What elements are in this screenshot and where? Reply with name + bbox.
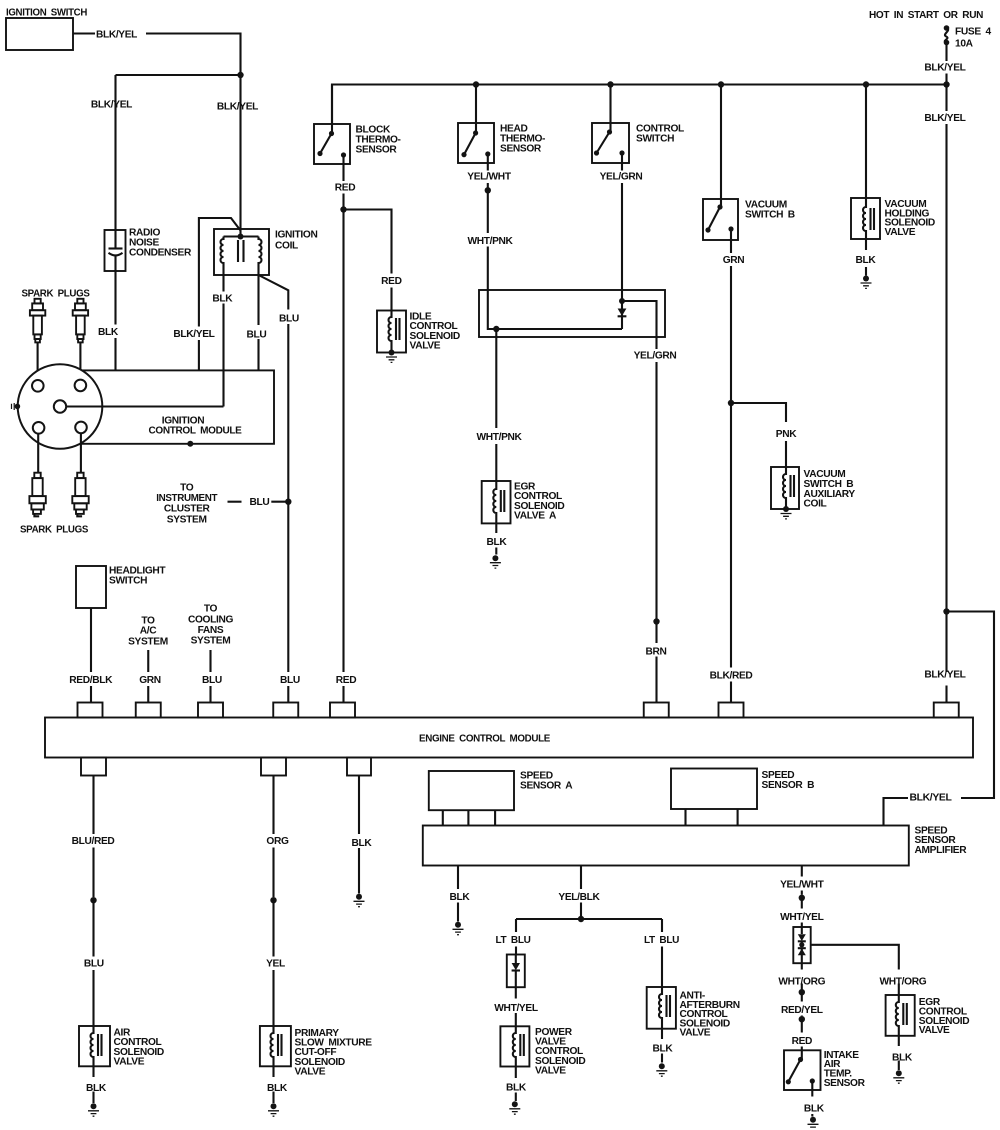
ground EGR A bbox=[492, 555, 498, 561]
wire PNK branch bbox=[731, 403, 786, 467]
ground EGR right bbox=[896, 1070, 902, 1076]
wire block thermo out RED bbox=[342, 155, 344, 210]
spark plug top-left bbox=[30, 299, 45, 343]
wire label to corner bbox=[146, 34, 241, 76]
connector pins ECM top bbox=[78, 703, 959, 718]
node junction YEL/BLK bbox=[578, 916, 584, 922]
wire BLU down bbox=[92, 900, 94, 1026]
spark plug bottom-right bbox=[72, 473, 88, 514]
svg-text:SPARK PLUGS: SPARK PLUGS bbox=[20, 525, 89, 536]
solenoid vacuum switch B auxiliary coil bbox=[771, 467, 799, 509]
svg-text:VALVE: VALVE bbox=[410, 340, 441, 351]
wire down to condenser bbox=[114, 75, 116, 230]
svg-text:BLU: BLU bbox=[250, 497, 270, 508]
wire LT BLU split bbox=[516, 918, 662, 920]
svg-text:RED: RED bbox=[792, 1036, 812, 1047]
svg-text:SWITCH: SWITCH bbox=[109, 576, 147, 587]
distributor left pickup dot bbox=[15, 404, 21, 410]
wire distributor to plug BL bbox=[37, 434, 39, 473]
capacitor radio noise condenser bbox=[105, 230, 126, 271]
connector loop box bbox=[479, 290, 665, 337]
solenoid idle control valve bbox=[377, 311, 406, 353]
svg-text:BLK: BLK bbox=[653, 1043, 674, 1054]
svg-text:BLK: BLK bbox=[449, 892, 470, 903]
node dot BLU splice bbox=[90, 897, 96, 903]
svg-text:AMPLIFIER: AMPLIFIER bbox=[915, 845, 968, 856]
wire dash cluster right bbox=[271, 501, 288, 503]
svg-text:BLK: BLK bbox=[506, 1083, 527, 1094]
wire EGR right to ground bbox=[898, 1036, 900, 1070]
node bus junction head thermo bbox=[473, 81, 479, 87]
wire RED/YEL bbox=[801, 992, 803, 1016]
node junction blkyel bbox=[237, 72, 243, 78]
wire EGR A to ground BLK bbox=[495, 523, 497, 554]
node dot BRN splice bbox=[653, 618, 659, 624]
wire fuse down bbox=[945, 45, 947, 61]
wire LT BLU left bbox=[515, 919, 517, 955]
wire distributor center to coil BLK bbox=[66, 405, 223, 407]
connector pins ECM bottom bbox=[81, 758, 371, 776]
wire coil right terminal BLU to module bbox=[257, 275, 259, 370]
svg-text:BLK: BLK bbox=[267, 1083, 288, 1094]
svg-text:BLU: BLU bbox=[84, 959, 104, 970]
svg-text:BLK: BLK bbox=[804, 1103, 825, 1114]
wire YEL/GRN inside loop bbox=[622, 290, 657, 337]
switch control switch bbox=[609, 85, 611, 133]
svg-text:WHT/PNK: WHT/PNK bbox=[467, 236, 513, 247]
svg-text:GRN: GRN bbox=[139, 675, 161, 686]
svg-text:IGNITION SWITCH: IGNITION SWITCH bbox=[6, 7, 87, 18]
speed sensor A box bbox=[429, 771, 514, 810]
svg-text:IGNITION: IGNITION bbox=[275, 230, 317, 241]
ground BLK ECM bbox=[356, 894, 362, 900]
svg-text:COOLING: COOLING bbox=[188, 614, 234, 625]
wire condenser to module BLK bbox=[114, 271, 116, 370]
node junction diode top bbox=[619, 298, 625, 304]
svg-text:BLK: BLK bbox=[892, 1053, 913, 1064]
svg-text:BLK/RED: BLK/RED bbox=[710, 671, 753, 682]
diode pack box D3/D4 bbox=[793, 927, 810, 963]
wire WHT/PNK down to loop box bbox=[487, 190, 489, 290]
svg-text:YEL/GRN: YEL/GRN bbox=[600, 172, 643, 183]
wire RED to sensor bbox=[801, 1019, 803, 1059]
wire junction left bbox=[116, 74, 241, 76]
svg-text:YEL/WHT: YEL/WHT bbox=[467, 172, 512, 183]
svg-text:VALVE: VALVE bbox=[535, 1065, 566, 1076]
node bus junction control switch bbox=[607, 81, 613, 87]
svg-text:BLK/YEL: BLK/YEL bbox=[910, 792, 952, 803]
wire cooling fans to ECM bbox=[209, 650, 211, 703]
connector stubs sensor A bbox=[443, 810, 495, 825]
svg-text:CONDENSER: CONDENSER bbox=[129, 248, 192, 259]
svg-text:SYSTEM: SYSTEM bbox=[167, 514, 207, 525]
svg-text:FUSE 4: FUSE 4 bbox=[955, 27, 991, 38]
svg-text:BLK/YEL: BLK/YEL bbox=[217, 101, 258, 112]
solenoid power valve control bbox=[500, 1026, 529, 1066]
wire ignition switch to label bbox=[73, 32, 95, 34]
wire head thermo out YEL/WHT bbox=[487, 154, 489, 190]
svg-text:SYSTEM: SYSTEM bbox=[191, 636, 231, 647]
node dot RED/YEL splice bbox=[799, 989, 805, 995]
svg-text:SWITCH: SWITCH bbox=[636, 133, 674, 144]
svg-text:WHT/YEL: WHT/YEL bbox=[780, 912, 824, 923]
switch vacuum switch B bbox=[720, 85, 722, 208]
wire YEL/GRN out of loop down bbox=[655, 337, 657, 703]
svg-text:INSTRUMENT: INSTRUMENT bbox=[156, 493, 218, 504]
switch block thermo-sensor bbox=[331, 85, 333, 134]
svg-text:RED/YEL: RED/YEL bbox=[781, 1005, 823, 1016]
ground intake sensor bbox=[810, 1117, 816, 1123]
svg-text:SWITCH B: SWITCH B bbox=[745, 210, 795, 221]
svg-text:CONTROL MODULE: CONTROL MODULE bbox=[149, 425, 243, 436]
svg-text:BLK/YEL: BLK/YEL bbox=[173, 329, 214, 340]
node bus junction fuse main bbox=[943, 81, 949, 87]
svg-text:WHT/PNK: WHT/PNK bbox=[476, 432, 522, 443]
svg-text:BLK/YEL: BLK/YEL bbox=[91, 99, 132, 110]
solenoid EGR control valve A bbox=[482, 481, 511, 523]
wire main bus bbox=[332, 85, 947, 125]
wire power valve to ground bbox=[515, 1067, 517, 1102]
svg-text:VALVE: VALVE bbox=[885, 227, 916, 238]
svg-text:VALVE: VALVE bbox=[680, 1028, 711, 1039]
svg-text:BLK: BLK bbox=[86, 1083, 107, 1094]
svg-text:COIL: COIL bbox=[804, 499, 827, 510]
node dot YEL splice bbox=[270, 897, 276, 903]
wire distributor to plug BR bbox=[80, 433, 82, 472]
wire coil left terminal BLK down bbox=[222, 275, 224, 407]
svg-text:BLK: BLK bbox=[352, 838, 373, 849]
svg-text:SENSOR: SENSOR bbox=[500, 143, 542, 154]
svg-text:ENGINE CONTROL MODULE: ENGINE CONTROL MODULE bbox=[419, 734, 551, 745]
diode D1 bbox=[621, 301, 623, 329]
wire RED branch to idle solenoid bbox=[344, 210, 392, 311]
wire to bus bbox=[945, 74, 947, 85]
svg-text:BLK: BLK bbox=[212, 294, 233, 305]
svg-text:SENSOR B: SENSOR B bbox=[762, 780, 815, 791]
svg-text:BLU: BLU bbox=[279, 313, 299, 324]
wire control switch out YEL/GRN bbox=[621, 153, 623, 290]
svg-text:BLK: BLK bbox=[856, 255, 877, 266]
wire anti-afterburn to ground bbox=[661, 1029, 663, 1063]
wire coil diagonal BLU to cluster/ECM bbox=[259, 275, 289, 502]
engine control module box bbox=[45, 718, 973, 758]
ground power valve bbox=[512, 1101, 518, 1107]
switch head thermo-sensor bbox=[475, 85, 477, 134]
node dot module bottom bbox=[187, 441, 193, 447]
node junction WHT/PNK branch bbox=[493, 326, 499, 332]
solenoid anti-afterburn control valve bbox=[647, 987, 676, 1029]
svg-text:VALVE: VALVE bbox=[114, 1056, 145, 1067]
svg-text:CLUSTER: CLUSTER bbox=[164, 503, 211, 514]
svg-text:SENSOR: SENSOR bbox=[824, 1078, 866, 1089]
ground BLK amp bbox=[455, 922, 461, 928]
svg-text:VALVE A: VALVE A bbox=[514, 510, 557, 521]
wire headlight to ECM bbox=[90, 608, 92, 703]
node dot RED splice bbox=[799, 1016, 805, 1022]
wire A/C to ECM bbox=[147, 650, 149, 703]
svg-text:WHT/ORG: WHT/ORG bbox=[778, 977, 825, 988]
wire plug TL to distributor bbox=[37, 342, 39, 380]
node junction BLK/YEL speed amp branch bbox=[943, 608, 949, 614]
svg-text:BLK/YEL: BLK/YEL bbox=[924, 63, 965, 74]
svg-text:COIL: COIL bbox=[275, 241, 298, 252]
wire air control to ground bbox=[92, 1066, 94, 1103]
connector stubs sensor B bbox=[686, 809, 738, 826]
svg-text:BRN: BRN bbox=[645, 646, 666, 657]
ignition switch box bbox=[6, 18, 73, 50]
wire YEL down bbox=[272, 900, 274, 1026]
spark plug bottom-left bbox=[29, 473, 45, 514]
svg-text:ORG: ORG bbox=[266, 836, 289, 847]
wire WHT/YEL bbox=[801, 898, 803, 927]
wire BLK from ECM bbox=[358, 776, 360, 894]
wire LT BLU right bbox=[661, 919, 663, 987]
svg-text:LT BLU: LT BLU bbox=[496, 935, 531, 946]
ground air control bbox=[91, 1103, 97, 1109]
svg-text:YEL/GRN: YEL/GRN bbox=[634, 351, 677, 362]
svg-text:BLK: BLK bbox=[98, 327, 119, 338]
node junction GRN/PNK bbox=[728, 400, 734, 406]
switch intake air temp sensor bbox=[784, 1050, 821, 1090]
svg-text:RED: RED bbox=[336, 675, 356, 686]
ground idle solenoid bbox=[389, 350, 395, 356]
wire primary to ground bbox=[272, 1066, 274, 1103]
svg-text:A/C: A/C bbox=[140, 626, 157, 637]
node junction RED bbox=[340, 206, 346, 212]
svg-text:10A: 10A bbox=[955, 39, 974, 50]
svg-text:RED: RED bbox=[381, 276, 401, 287]
speed sensor amplifier box bbox=[423, 826, 909, 866]
solenoid vacuum holding valve bbox=[865, 85, 867, 199]
wire vacuum switch B out GRN bbox=[730, 229, 732, 403]
distributor terminals bbox=[32, 380, 87, 434]
wire dash cluster left bbox=[228, 501, 242, 503]
node dot WHT/YEL splice bbox=[799, 895, 805, 901]
svg-text:YEL/WHT: YEL/WHT bbox=[780, 880, 825, 891]
svg-text:BLU: BLU bbox=[280, 675, 300, 686]
wire WHT/PNK inside loop bbox=[488, 290, 622, 329]
wire WHT/PNK to EGR A bbox=[495, 329, 497, 481]
ground vacuum holding bbox=[863, 276, 869, 282]
svg-text:BLK/YEL: BLK/YEL bbox=[924, 113, 965, 124]
wire plug TR to distributor bbox=[79, 342, 81, 380]
wire branch to EGR right bbox=[811, 945, 899, 995]
svg-text:BLU: BLU bbox=[246, 329, 266, 340]
speed sensor B box bbox=[671, 769, 757, 810]
svg-text:TO: TO bbox=[204, 604, 218, 615]
solenoid EGR control valve right bbox=[886, 995, 915, 1036]
spark plug top-right bbox=[73, 299, 88, 343]
svg-text:BLU/RED: BLU/RED bbox=[72, 836, 115, 847]
wire YEL/WHT from amplifier bbox=[801, 866, 803, 895]
wire GRN main to ECM bbox=[730, 403, 732, 703]
diode D2 box bbox=[507, 955, 525, 988]
wire branch to speed sensor amplifier bbox=[884, 612, 995, 826]
wire main BLK/YEL down right side bbox=[945, 85, 947, 703]
distributor circle bbox=[18, 364, 103, 449]
fuse F4 bbox=[944, 25, 950, 31]
svg-text:BLK/YEL: BLK/YEL bbox=[96, 30, 137, 41]
wire vacuum holding to ground BLK bbox=[865, 239, 867, 276]
wire BLU/RED from ECM bbox=[92, 776, 94, 898]
svg-text:VALVE: VALVE bbox=[919, 1025, 950, 1036]
solenoid air control valve bbox=[79, 1026, 110, 1066]
wire hook coil to module BLK/YEL bbox=[199, 218, 241, 370]
svg-text:YEL: YEL bbox=[266, 959, 285, 970]
svg-text:HOT IN START OR RUN: HOT IN START OR RUN bbox=[869, 10, 983, 21]
ignition coil internals bbox=[224, 235, 259, 237]
wire down to ignition coil bbox=[239, 75, 241, 237]
svg-text:SYSTEM: SYSTEM bbox=[128, 636, 168, 647]
ignition control module box bbox=[80, 370, 274, 443]
ground primary bbox=[271, 1103, 277, 1109]
ground aux coil bbox=[783, 506, 789, 512]
svg-text:RED: RED bbox=[335, 182, 355, 193]
ground anti-afterburn bbox=[659, 1063, 665, 1069]
wire ORG from ECM bbox=[272, 776, 274, 898]
node dot diode pack mid bbox=[799, 942, 804, 947]
svg-text:VALVE: VALVE bbox=[295, 1066, 326, 1077]
svg-text:SENSOR: SENSOR bbox=[356, 144, 398, 155]
headlight switch box bbox=[76, 566, 106, 608]
wire BLK from amplifier bbox=[457, 866, 459, 922]
svg-text:LT BLU: LT BLU bbox=[644, 935, 679, 946]
node bus junction vacuum switch B bbox=[718, 81, 724, 87]
svg-text:SENSOR A: SENSOR A bbox=[520, 781, 573, 792]
ignition coil U box bbox=[214, 229, 269, 275]
wire WHT/ORG left chain bbox=[801, 963, 803, 989]
svg-text:WHT/ORG: WHT/ORG bbox=[880, 977, 927, 988]
wire BLU down to ECM bbox=[287, 502, 289, 703]
node junction BLU cluster bbox=[285, 499, 291, 505]
svg-text:PNK: PNK bbox=[776, 429, 797, 440]
svg-text:RED/BLK: RED/BLK bbox=[69, 675, 113, 686]
svg-text:BLK: BLK bbox=[487, 537, 508, 548]
svg-text:YEL/BLK: YEL/BLK bbox=[558, 892, 600, 903]
svg-text:WHT/YEL: WHT/YEL bbox=[494, 1003, 538, 1014]
wire YEL/BLK from amplifier bbox=[580, 866, 582, 920]
wire intake sensor to ground bbox=[811, 1081, 813, 1117]
wire RED main to ECM bbox=[342, 210, 344, 703]
svg-text:FANS: FANS bbox=[198, 625, 224, 636]
node dot YEL/WHT bbox=[485, 187, 491, 193]
svg-text:GRN: GRN bbox=[723, 255, 745, 266]
svg-text:BLU: BLU bbox=[202, 675, 222, 686]
node bus junction vacuum holding bbox=[863, 81, 869, 87]
solenoid primary slow mixture cut-off valve bbox=[260, 1026, 291, 1066]
svg-text:BLK/YEL: BLK/YEL bbox=[924, 670, 965, 681]
wire to power valve solenoid bbox=[515, 987, 517, 1026]
